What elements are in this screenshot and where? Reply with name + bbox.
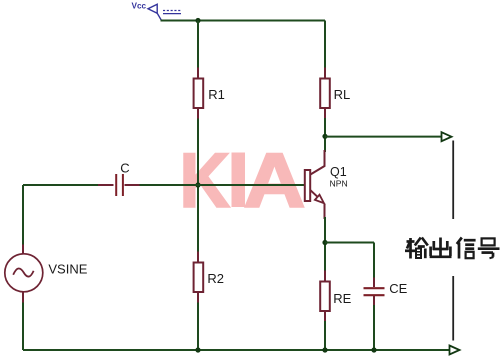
resistor RL [320, 68, 330, 119]
transistor Q1 [305, 150, 325, 219]
svg-text:VSINE: VSINE [48, 261, 87, 276]
svg-text:R2: R2 [207, 271, 224, 286]
power symbol Vcc [148, 4, 181, 20]
wire CE bottom [373, 305, 375, 350]
node top junction [195, 18, 200, 23]
svg-text:Vcc: Vcc [132, 2, 147, 11]
svg-text:NPN: NPN [330, 178, 348, 188]
base bar [305, 170, 310, 201]
wire output tap [325, 136, 441, 138]
wire RL column top [324, 21, 326, 80]
wire CE column top [373, 243, 375, 288]
wire base right of capacitor [140, 184, 306, 186]
output arrow bottom [450, 346, 460, 355]
annotation line lower [452, 276, 454, 341]
annotation line upper [452, 141, 454, 220]
node ground CE [371, 347, 376, 352]
resistor RE [320, 271, 330, 322]
source VSINE [5, 185, 43, 350]
wire R1 column upper [197, 21, 199, 80]
wire base [23, 184, 106, 186]
wire RE bottom [324, 321, 326, 350]
node collector output junction [322, 134, 327, 139]
glyph hao 号 [478, 238, 500, 258]
svg-text:A: A [244, 138, 305, 223]
resistor R2 [194, 252, 204, 303]
node emitter junction [322, 240, 327, 245]
svg-text:Q1: Q1 [330, 165, 347, 179]
output arrow top [442, 132, 452, 141]
wire emitter column [324, 217, 326, 282]
svg-text:CE: CE [389, 281, 407, 296]
wire RL bottom to collector [324, 118, 326, 152]
collector stub [310, 150, 324, 175]
wire emitter to CE [325, 242, 374, 244]
node ground R2 [195, 347, 200, 352]
node base junction [195, 182, 200, 187]
resistor R1 [194, 68, 204, 119]
capacitor CE [364, 278, 385, 306]
svg-text:RE: RE [333, 291, 351, 306]
svg-text:R1: R1 [208, 87, 225, 102]
svg-text:K: K [180, 139, 229, 223]
node ground RE [322, 347, 327, 352]
wire ground rail [23, 349, 449, 351]
glyph chu 出 [430, 238, 452, 258]
wire R1 to base node to R2 [197, 107, 199, 263]
wire top rail [161, 20, 326, 22]
wire R2 bottom to ground rail [197, 291, 199, 350]
capacitor C [98, 174, 140, 196]
watermark KIA [180, 138, 305, 223]
svg-text:RL: RL [334, 87, 351, 102]
label 输出信号 (hand-drawn glyphs) [405, 238, 500, 259]
emitter with arrow [310, 190, 317, 197]
glyph shu 输 [405, 238, 428, 259]
svg-text:C: C [120, 161, 129, 176]
glyph xin 信 [457, 238, 476, 259]
